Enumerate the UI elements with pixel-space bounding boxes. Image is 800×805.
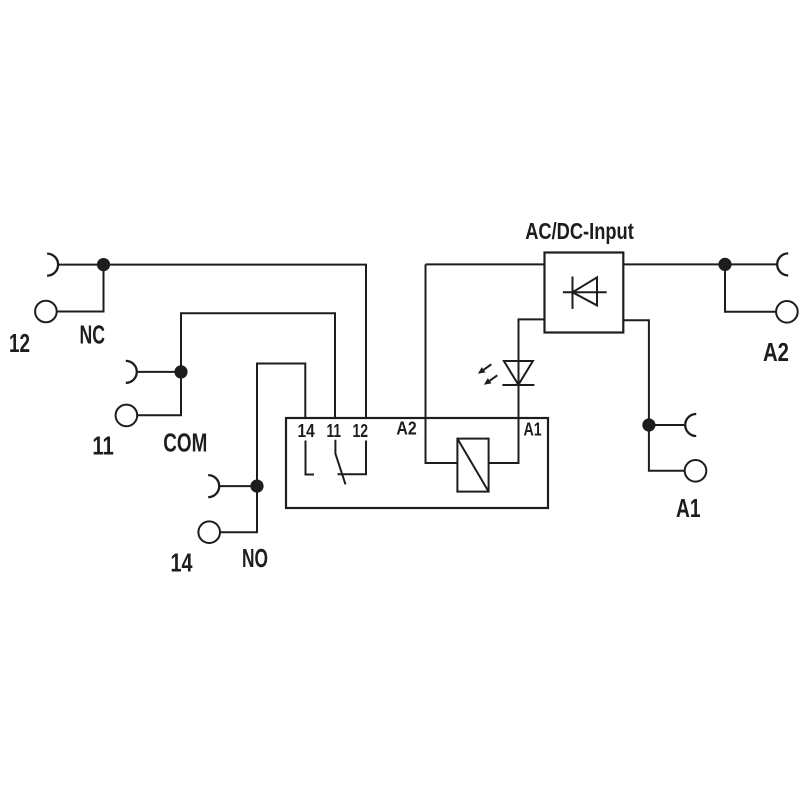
wire AC/DC box right bottom to A1 terminal	[623, 320, 684, 471]
terminal socket 12 (NC side plug arc)	[47, 254, 58, 276]
contact fixed NO leg 14	[306, 441, 315, 475]
svg-text:12: 12	[353, 421, 369, 441]
svg-text:A1: A1	[676, 493, 701, 523]
contact fixed NC leg 12	[338, 441, 367, 475]
terminal socket 11 (COM side plug arc)	[126, 361, 137, 383]
wire NC rail to relay contact 12	[104, 265, 367, 418]
svg-text:14: 14	[298, 421, 315, 441]
svg-text:A2: A2	[396, 418, 416, 438]
node junction 14/NO	[250, 480, 263, 493]
svg-text:NO: NO	[242, 543, 268, 573]
wire AC/DC box left top to A2 rail	[426, 263, 545, 265]
svg-text:AC/DC-Input: AC/DC-Input	[525, 218, 634, 244]
diode horizontal line	[563, 291, 607, 293]
svg-text:14: 14	[171, 548, 193, 578]
svg-text:12: 12	[9, 328, 30, 358]
wire coil to A1 / LED branch	[489, 319, 545, 463]
terminal circle 12	[35, 301, 57, 323]
terminal circle A2	[776, 301, 798, 323]
wire NO rail to relay contact 14	[257, 364, 305, 487]
wire junction down to terminal 11	[137, 372, 181, 415]
wire junction to A1 socket	[649, 424, 685, 426]
contact movable pole 11 with switch arm	[335, 440, 345, 485]
AC/DC input rectifier box	[545, 253, 624, 333]
node junction A1	[642, 418, 655, 431]
svg-text:COM: COM	[163, 427, 207, 457]
svg-text:11: 11	[92, 431, 113, 461]
wire 11-socket to junction	[138, 371, 182, 373]
relay module box K1	[286, 418, 548, 508]
LED cathode bar	[502, 384, 534, 386]
terminal circle A1	[685, 460, 707, 482]
node junction 12/NC	[97, 258, 110, 271]
wire junction to A2 socket	[725, 263, 777, 265]
node junction 11/COM	[174, 365, 187, 378]
wire junction down to terminal 14	[220, 486, 257, 532]
wire junction down to terminal A2	[725, 264, 776, 311]
terminal circle 11	[116, 405, 138, 427]
node junction A2	[718, 258, 731, 271]
svg-text:11: 11	[327, 421, 342, 441]
terminal circle 14	[198, 521, 220, 543]
svg-text:A1: A1	[524, 419, 542, 439]
wire 12-socket to junction	[59, 264, 104, 266]
diode cathode bar	[572, 277, 574, 309]
coil diagonal	[457, 439, 488, 492]
wire A2 feed into coil	[426, 264, 458, 463]
svg-text:NC: NC	[80, 320, 106, 350]
terminal socket 14 (NO side plug arc)	[208, 475, 219, 497]
wire COM rail to relay contact 11	[181, 313, 335, 418]
LED D1 triangle	[504, 361, 533, 385]
wire AC/DC box right top to A2 terminal	[623, 263, 725, 265]
wire junction down to terminal 12	[57, 265, 104, 312]
diode triangle	[573, 277, 598, 305]
wire 14-socket to junction	[220, 485, 257, 487]
LED emission arrow 1	[484, 364, 492, 370]
terminal socket A2 plug arc	[777, 253, 788, 275]
LED emission arrow 2	[490, 375, 498, 381]
svg-text:A2: A2	[763, 337, 789, 367]
relay coil K1	[457, 439, 488, 492]
terminal socket A1 plug arc	[685, 414, 696, 436]
